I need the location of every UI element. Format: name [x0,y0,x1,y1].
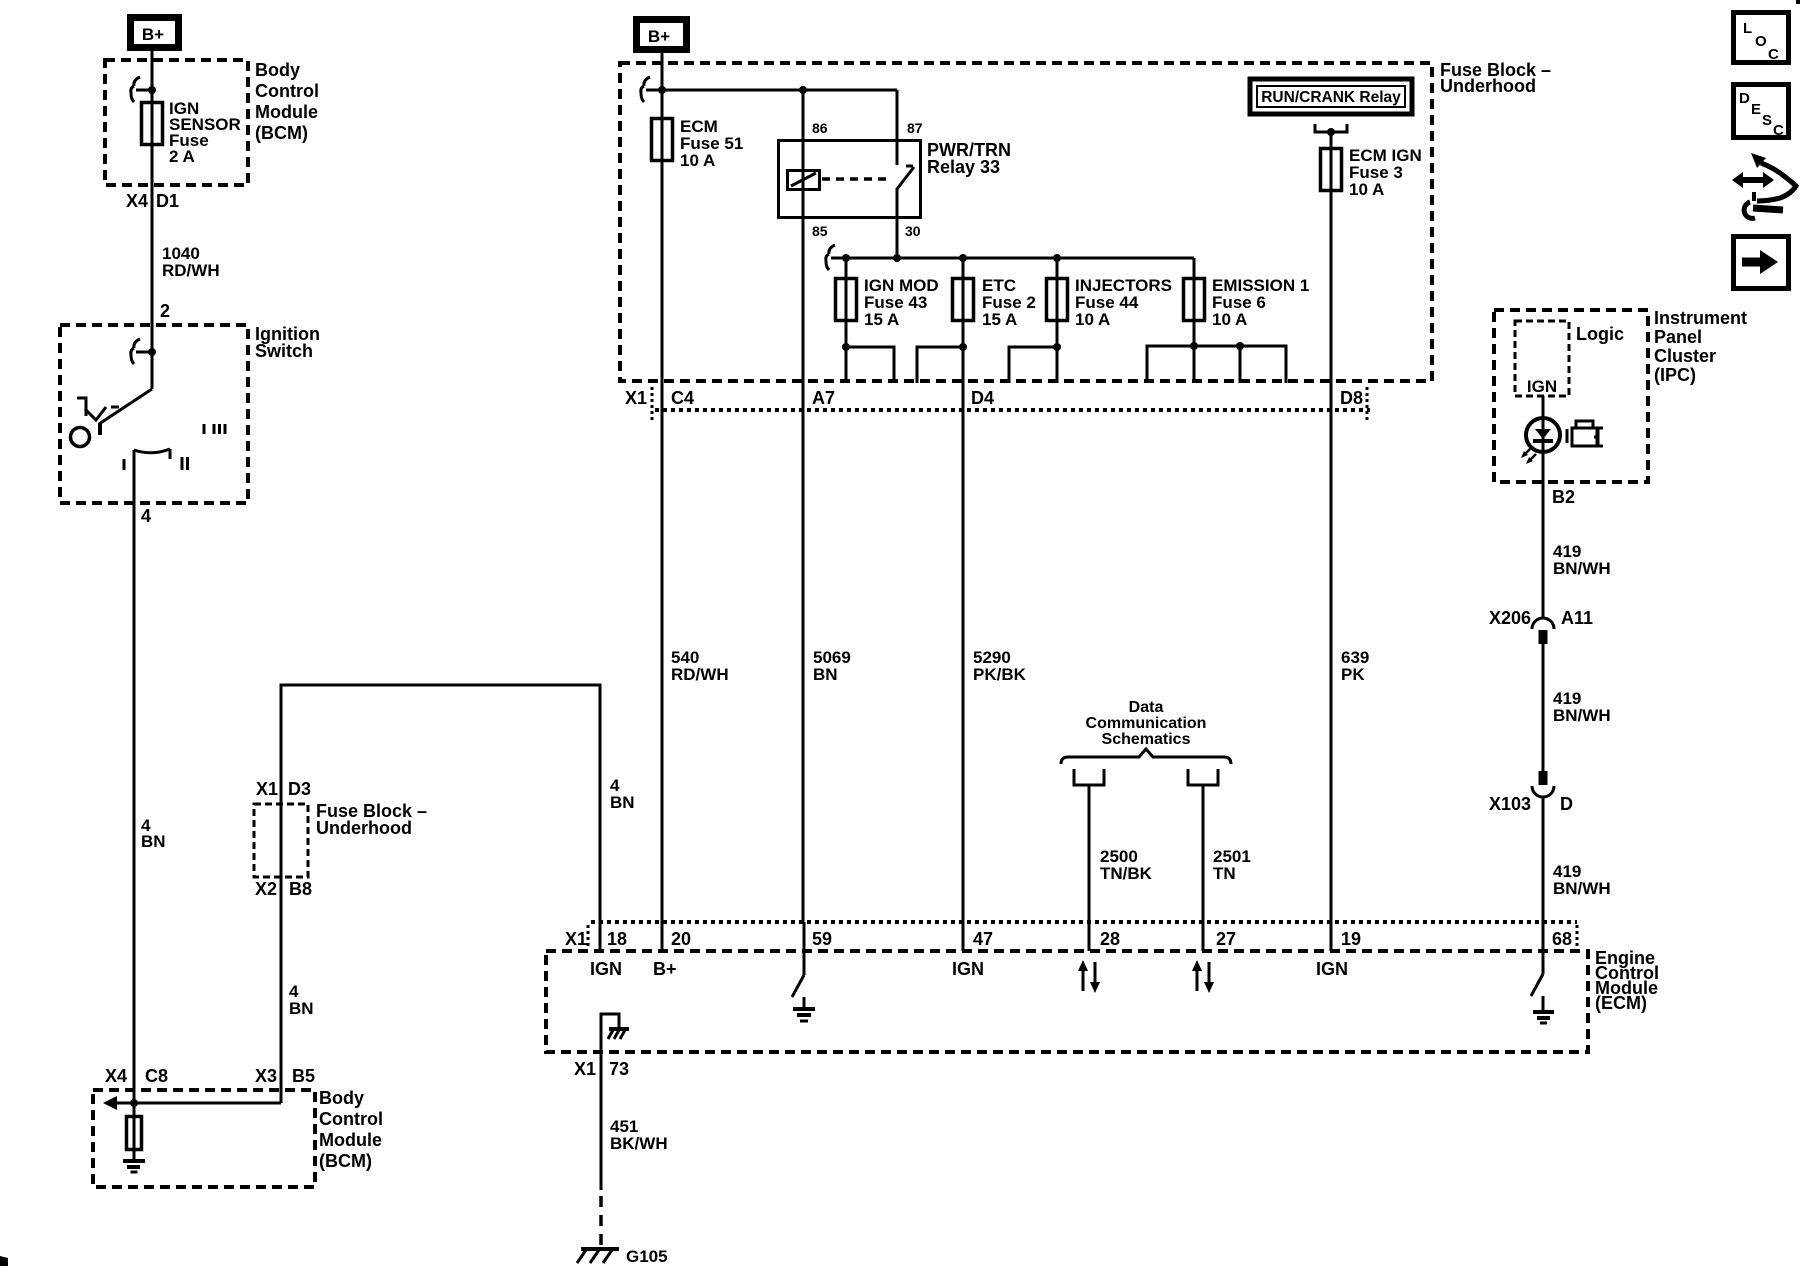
svg-text:Data: Data [1129,699,1164,716]
data arrows at ECM pin 28 [1078,960,1100,993]
wire label 4 BN (riser) [289,982,314,1018]
page edge mark [0,1256,8,1266]
wire IPC B2 down (net 419 BN/WH) [1542,482,1545,618]
data arrows at ECM pin 27 [1192,960,1214,993]
svg-text:A11: A11 [1561,608,1593,628]
wire labels 419 BN/WH (upper) [1553,542,1611,578]
branch bracket from RUN/CRANK relay [1315,124,1347,136]
switch contact arc [134,449,170,459]
wire labels 419 BN/WH (middle) [1553,689,1611,725]
ground inside BCM [123,1161,145,1172]
svg-text:BN: BN [141,832,166,851]
wire labels 5290 PK/BK [973,648,1027,684]
PWR/TRN Relay label [927,140,1011,177]
relay pin numbers 86 87 [812,120,923,136]
svg-text:G105: G105 [626,1247,668,1266]
in-line connector X103 pin D [1489,771,1573,814]
svg-text:2 A: 2 A [169,147,195,166]
svg-text:X1: X1 [625,388,647,408]
fuse ECM Fuse 51 10A [652,117,744,170]
svg-text:Underhood: Underhood [1440,76,1536,96]
wire labels 639 PK [1341,648,1369,684]
wire through relay coil (86 to 85) [802,90,805,922]
wire relay pin 30 to fuse bus [896,188,899,258]
BCM label [255,60,319,143]
svg-text:BN: BN [610,793,635,812]
ECM pin 73 internal chassis ground branch [601,1014,629,1052]
ECM pin 59 internal driver switch to ground [792,922,804,997]
connector separator ticks [652,387,1367,420]
svg-text:C: C [1773,122,1784,139]
fuse IGN SENSOR 2A [142,99,241,166]
Fuse Block Underhood dashed box [620,63,1432,381]
connector X2 pin B8 labels [255,879,312,899]
svg-text:15 A: 15 A [864,310,899,329]
svg-text:X103: X103 [1489,794,1531,814]
branch bracket data link 2 [1188,769,1218,785]
connector X1 row labels (fuse block bottom) [625,388,1363,408]
B+ power terminal (left) [131,18,179,48]
wire data link to ECM pin 27 (net 2501 TN) [1202,785,1205,951]
PWR/TRN Relay 33 box [779,141,921,218]
svg-text:10 A: 10 A [1075,310,1110,329]
fuse ETC Fuse 2 15A [953,258,1036,951]
Engine Control Module dashed box [546,951,1588,1052]
svg-text:(BCM): (BCM) [255,123,308,143]
svg-text:4: 4 [141,506,151,526]
fuse block connector dotted line [655,408,1370,412]
Instrument Panel Cluster dashed box [1494,310,1648,482]
svg-text:O: O [1755,33,1767,50]
svg-text:Schematics: Schematics [1102,731,1191,748]
Body Control Module (BCM) top dashed box [105,60,248,185]
EMISSION 1 fuse output branch stubs [1147,342,1286,383]
svg-text:10 A: 10 A [1212,310,1247,329]
LOC navigation icon box [1734,13,1789,64]
svg-text:27: 27 [1216,929,1236,949]
svg-text:B8: B8 [289,879,312,899]
Data Communication Schematics label [1086,699,1207,748]
position O circle [71,428,90,447]
resistor inside BCM [127,1117,142,1150]
IGN MOD fuse output and branch stub [842,343,894,383]
connector X4 pin D1 labels [126,191,179,211]
connector X3 pin B5 labels [255,1066,315,1086]
Fuse Block Underhood label (left) [316,801,427,838]
relay coil [788,171,820,190]
svg-text:D: D [1560,794,1573,814]
svg-text:(ECM): (ECM) [1595,993,1647,1013]
svg-text:TN: TN [1213,864,1236,883]
wire labels 2501 TN [1213,847,1251,883]
fuse INJECTORS Fuse 44 10A [1047,258,1173,383]
ECM label [1595,948,1659,1013]
Fuse Block Underhood label (right) [1440,60,1551,96]
terminal clip symbol at BCM B+ input [131,77,156,102]
svg-text:47: 47 [973,929,993,949]
relay contact blade [897,166,914,189]
svg-text:Cluster: Cluster [1654,346,1716,366]
Body Control Module (BCM) bottom dashed box [93,1090,315,1187]
svg-text:2: 2 [160,301,170,321]
page corner mark [1796,0,1800,4]
DESC navigation icon box [1734,85,1789,140]
svg-text:BN: BN [813,665,838,684]
svg-text:B+: B+ [648,27,670,46]
wire data link to ECM pin 28 (net 2500 TN/BK) [1088,785,1091,951]
svg-text:X2: X2 [255,879,277,899]
terminal clip at fuse block B+ feed [641,77,666,102]
svg-text:X206: X206 [1489,608,1531,628]
svg-text:87: 87 [907,120,923,136]
svg-text:D3: D3 [288,779,311,799]
svg-text:D: D [1739,90,1750,107]
svg-text:Module: Module [255,102,318,122]
svg-text:L: L [1743,20,1752,37]
Ignition Switch dashed box [60,325,248,503]
brace over data link wires [1061,749,1231,764]
wire B+ down through fuse block [661,49,664,951]
svg-text:20: 20 [671,929,691,949]
wire ignition switch pin 4 down to BCM (net 4 BN) [133,450,136,1160]
svg-text:A7: A7 [812,388,835,408]
fuse EMISSION 1 Fuse 6 10A [1184,258,1310,383]
svg-text:C: C [1768,46,1779,63]
Logic block dashed box [1515,321,1569,396]
wire relay pin 87 from feed rail [896,90,899,165]
svg-text:BK/WH: BK/WH [610,1134,668,1153]
position marks I II at contact [124,457,188,470]
fuse bus rail [831,254,1194,262]
svg-text:Instrument: Instrument [1654,308,1747,328]
svg-text:85: 85 [812,223,828,239]
dashed wire continuation to G105 [599,1196,603,1248]
svg-text:IGN: IGN [952,959,984,979]
connector X4 pin C8 labels (BCM bottom) [105,1066,168,1086]
svg-text:B2: B2 [1552,487,1575,507]
svg-text:X4: X4 [105,1066,127,1086]
in-line connector X206 pin A11 [1489,608,1593,644]
wire labels 419 BN/WH (lower) [1553,862,1611,898]
check engine icon [1567,421,1603,446]
ECM pin 68 internal switch to ground [1531,974,1543,996]
wire X206 to X103 [1542,644,1545,771]
svg-text:Communication: Communication [1086,715,1207,732]
RUN/CRANK Relay callout box [1250,79,1412,114]
svg-text:IGN: IGN [1316,959,1348,979]
svg-text:RD/WH: RD/WH [671,665,729,684]
svg-text:(BCM): (BCM) [319,1151,372,1171]
wire inside BCM with left arrow [103,1096,281,1110]
svg-text:D8: D8 [1340,388,1363,408]
svg-text:BN/WH: BN/WH [1553,559,1611,578]
fuse ECM IGN Fuse 3 10A [1321,132,1422,951]
svg-text:Relay 33: Relay 33 [927,157,1000,177]
forward arrow icon box [1734,237,1789,289]
B+ power terminal (top middle) [637,20,687,50]
svg-text:B5: B5 [292,1066,315,1086]
svg-text:RUN/CRANK Relay: RUN/CRANK Relay [1261,89,1401,106]
svg-text:18: 18 [607,929,627,949]
svg-text:S: S [1762,112,1772,129]
svg-text:B+: B+ [142,25,164,44]
svg-text:Underhood: Underhood [316,818,412,838]
svg-text:(IPC): (IPC) [1654,365,1696,385]
svg-text:BN/WH: BN/WH [1553,879,1611,898]
connector X1 pin 73 labels [574,1059,629,1079]
ECM connector separator ticks [588,925,1577,947]
svg-text:X1: X1 [574,1059,596,1079]
svg-text:Control: Control [319,1109,383,1129]
svg-text:E: E [1751,101,1761,118]
svg-text:B+: B+ [653,959,677,979]
svg-text:IGN: IGN [1527,377,1557,396]
svg-text:C4: C4 [671,388,694,408]
wire label 1040 RD/WH [162,244,220,280]
wire labels 540 RD/WH [671,648,729,684]
svg-text:10 A: 10 A [680,151,715,170]
feed rail to relay pin 87 [662,86,897,94]
svg-text:X1: X1 [565,929,587,949]
connector X1 pin D3 labels (fuse block pass-through) [256,779,311,799]
svg-text:Module: Module [319,1130,382,1150]
svg-text:X4: X4 [126,191,148,211]
svg-text:X3: X3 [255,1066,277,1086]
svg-text:73: 73 [609,1059,629,1079]
ECM connector dotted line [591,920,1577,924]
ground at ECM pin 68 [1533,996,1554,1023]
chassis ground G105 [577,1249,619,1263]
svg-text:86: 86 [812,120,828,136]
svg-text:D4: D4 [971,388,994,408]
relay pin numbers 85 30 [812,223,921,239]
svg-text:PK: PK [1341,665,1365,684]
terminal clip inside ignition switch [131,339,156,364]
svg-text:10 A: 10 A [1349,180,1384,199]
key position pointer mark [77,398,119,420]
svg-text:RD/WH: RD/WH [162,261,220,280]
MIL indicator LED [1526,418,1560,452]
fuse IGN MOD Fuse 43 15A [836,258,939,383]
IPC label [1654,308,1747,385]
wire label 4 BN (top run) [610,776,635,812]
svg-text:Panel: Panel [1654,327,1702,347]
wire labels 2500 TN/BK [1100,847,1153,883]
relay coil-contact dashed link [822,177,892,181]
svg-text:PK/BK: PK/BK [973,665,1027,684]
ground at ECM pin 59 [793,997,815,1021]
LED emission arrows [1521,448,1536,464]
svg-text:30: 30 [905,223,921,239]
svg-text:D1: D1 [156,191,179,211]
svg-text:Switch: Switch [255,341,313,361]
wire B+ to IGN SENSOR fuse [151,51,154,389]
svg-text:59: 59 [812,929,832,949]
ECM pin number labels [607,929,1572,949]
branch bracket data link 1 [1074,769,1104,785]
svg-text:BN/WH: BN/WH [1553,706,1611,725]
svg-text:Body: Body [319,1088,364,1108]
svg-text:Body: Body [255,60,300,80]
wire X103 to ECM pin 68 [1542,797,1545,974]
Ignition Switch label [255,324,320,361]
svg-text:Logic: Logic [1576,324,1624,344]
svg-text:C8: C8 [145,1066,168,1086]
wire labels 451 BK/WH [610,1117,668,1153]
svg-text:IGN: IGN [590,959,622,979]
wire labels 5069 BN [813,648,851,684]
wire logic to indicator [1542,396,1545,482]
ETC fuse output branch stub [917,343,967,383]
troubleshooting icon (arrows and wrench) [1732,153,1796,218]
wire ECM pin 73 to G105 (net 451 BK/WH) [600,1052,603,1190]
terminal clip at fuse bus left end [826,245,835,270]
svg-text:15 A: 15 A [982,310,1017,329]
INJECTORS fuse output branch stub [1009,343,1061,383]
svg-text:TN/BK: TN/BK [1100,864,1153,883]
ignition switch blade [99,389,152,435]
svg-text:19: 19 [1341,929,1361,949]
svg-text:28: 28 [1100,929,1120,949]
Fuse Block Underhood pass-through dashed box [254,804,308,877]
svg-text:Control: Control [255,81,319,101]
wire BCM to fuse block to ECM (net 4 BN right branch) [281,685,600,1103]
svg-text:68: 68 [1552,929,1572,949]
svg-text:BN: BN [289,999,314,1018]
svg-text:X1: X1 [256,779,278,799]
BCM bottom label [319,1088,383,1171]
position marks I III [204,424,225,434]
wire label 4 BN (ignition output) [141,816,166,851]
ECM pin function labels [590,959,1348,979]
